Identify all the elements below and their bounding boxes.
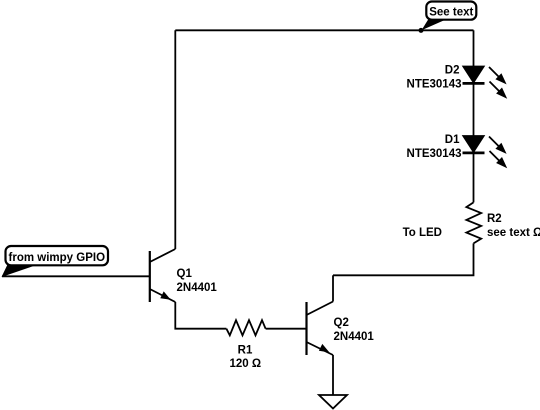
svg-text:120 Ω: 120 Ω: [229, 358, 261, 370]
wire Q1 collector riser to top rail: [174, 30, 176, 249]
node See-text anchor junction dot: [419, 28, 424, 33]
svg-text:D1: D1: [445, 134, 460, 146]
transistor Q1: [150, 249, 176, 302]
svg-text:Q2: Q2: [334, 317, 349, 329]
label See text callout: [422, 2, 477, 31]
svg-text:D2: D2: [445, 64, 460, 76]
LED D1: [463, 136, 508, 168]
LED D2: [463, 66, 508, 98]
svg-text:NTE30143: NTE30143: [407, 148, 462, 160]
wire Q2 emitter to ground: [332, 355, 334, 395]
svg-text:To LED: To LED: [403, 227, 442, 239]
ground: [319, 395, 347, 409]
wire top rail: [175, 29, 473, 31]
svg-text:Q1: Q1: [177, 268, 193, 280]
svg-text:R2: R2: [487, 213, 502, 225]
wire GPIO input to Q1 base: [2, 275, 150, 277]
svg-text:NTE30143: NTE30143: [407, 78, 462, 90]
wire R2 bottom to Q2 collector rail: [333, 243, 474, 275]
wire D2 cathode to D1 anode: [473, 83, 475, 136]
label from wimpy GPIO callout: [2, 246, 109, 277]
svg-text:2N4401: 2N4401: [177, 282, 218, 294]
wire Q1 emitter down and across to R1: [175, 302, 226, 329]
resistor R2: [466, 202, 481, 243]
svg-text:R1: R1: [238, 345, 253, 357]
wire Q2 collector riser: [332, 275, 334, 301]
resistor R1: [226, 320, 265, 335]
svg-text:see text Ω: see text Ω: [487, 227, 540, 239]
svg-text:from wimpy GPIO: from wimpy GPIO: [9, 252, 106, 264]
wire R1 to Q2 base: [266, 328, 307, 330]
wire D1 cathode to R2: [473, 153, 475, 203]
svg-text:2N4401: 2N4401: [334, 331, 375, 343]
wire right rail to D2 anode: [473, 30, 475, 66]
transistor Q2: [307, 302, 334, 356]
svg-text:See text: See text: [429, 7, 473, 19]
